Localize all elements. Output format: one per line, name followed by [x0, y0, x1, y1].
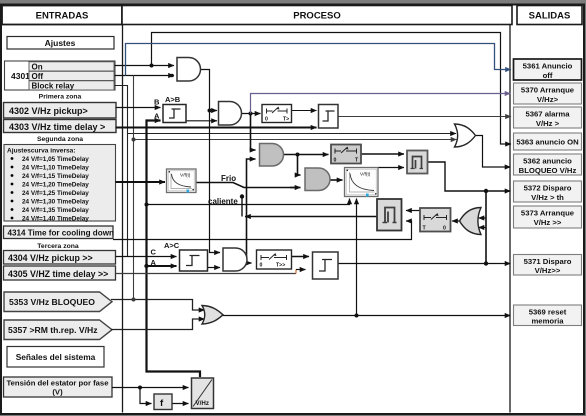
svg-text:Ajustescurva inversa:: Ajustescurva inversa: — [7, 148, 76, 155]
output box 5373 Arranque V/Hz >> — [514, 206, 582, 228]
output box 5370 Arranque V/Hz> — [514, 83, 582, 104]
svg-text:24 V/f=1,25 TimeDelay: 24 V/f=1,25 TimeDelay — [22, 190, 89, 197]
svg-text:V/Hz>: V/Hz> — [537, 95, 559, 104]
wire violet pickup to output 5370 Arranque — [251, 94, 511, 114]
wire Block relay continuation down to 4304 row — [127, 134, 129, 257]
wire 4305 gray to trigger S3 second input — [116, 273, 297, 275]
wire Tension V to V/Hz divider — [112, 387, 189, 389]
svg-text:V/Hz >>: V/Hz >> — [534, 218, 562, 227]
wire 5353 vertical up to OR input line — [133, 140, 135, 300]
wire curve box 1 output through Frio/caliente switch to AND U4 — [196, 183, 295, 188]
column divider right — [509, 25, 511, 413]
V/Hz divider box — [192, 378, 214, 409]
setting box 4302 V/Hz pickup — [4, 103, 117, 119]
svg-text:Tercera zona: Tercera zona — [37, 243, 79, 250]
svg-text:(V): (V) — [52, 388, 63, 397]
wire trip vertical bus — [485, 191, 487, 264]
comparator A>B — [163, 105, 186, 123]
node junction at AND U2 input — [208, 109, 212, 113]
svg-text:Primera zona: Primera zona — [39, 94, 82, 101]
output box 5362 anuncio BLOQUEO V/Hz — [514, 154, 582, 175]
wire orange jog on 4305 line — [295, 270, 297, 274]
svg-text:24 V/f=1,15 TimeDelay: 24 V/f=1,15 TimeDelay — [22, 173, 89, 180]
node junction V branch — [138, 386, 142, 390]
output box 5371 Disparo V/Hz>> — [514, 255, 582, 276]
wire 4304 to comparator C input — [116, 256, 177, 258]
svg-text:B: B — [154, 98, 160, 107]
svg-text:5363 anuncio ON: 5363 anuncio ON — [516, 138, 579, 147]
arrow bus into comparator A input — [150, 120, 161, 122]
svg-text:A>B: A>B — [165, 95, 181, 104]
svg-text:V/f(t): V/f(t) — [180, 173, 191, 179]
svg-text:24 V/f=1,35 TimeDelay: 24 V/f=1,35 TimeDelay — [22, 207, 89, 214]
wire bus tap to curve box 2 bottom — [147, 199, 350, 205]
timer 0-T gray box — [331, 145, 361, 164]
wire V/Hz measuring bus — [147, 121, 201, 378]
svg-text:On: On — [32, 63, 43, 72]
mirrored OR gate trip collect — [460, 208, 482, 235]
output box 5369 reset memoria — [514, 305, 582, 326]
svg-text:0: 0 — [334, 158, 337, 164]
svg-text:5373 Arranque: 5373 Arranque — [521, 209, 575, 218]
trigger S4 pulse gray — [407, 151, 428, 174]
wire branch to AND U2 first input — [210, 110, 218, 112]
input box Tensión del estator por fase (V) — [4, 377, 113, 397]
AND gate U2 stage 1 — [219, 102, 242, 126]
svg-text:24 V/f=1,30 TimeDelay: 24 V/f=1,30 TimeDelay — [22, 199, 89, 206]
binary input tag 5357 >RM th.rep. V/Hz — [4, 320, 112, 340]
svg-text:24 V/f=1,40 TimeDelay: 24 V/f=1,40 TimeDelay — [22, 216, 89, 223]
wire dropout timer output to pulse box — [406, 210, 420, 212]
pulse box reset gray — [377, 199, 402, 231]
svg-text:ENTRADAS: ENTRADAS — [36, 11, 89, 22]
node caliente contact — [240, 194, 244, 198]
wire comparator A>B output to AND U2 — [186, 120, 217, 122]
wire timer T> output to trigger S1 — [292, 110, 317, 112]
label box Señales del sistema — [7, 347, 104, 368]
svg-text:V/Hz>>: V/Hz>> — [535, 266, 561, 275]
svg-text:0: 0 — [443, 226, 446, 232]
svg-text:caliente: caliente — [208, 197, 238, 206]
node junction 5353 branch up — [132, 298, 136, 302]
svg-text:Segunda zona: Segunda zona — [37, 136, 83, 143]
wire bus to comparator A>C input A — [147, 265, 177, 267]
wire 5353 to OR gate U6 — [111, 300, 205, 311]
AND gate U5 stage 3 — [223, 248, 247, 271]
wire blocking OR output to 5362 anuncio BLOQUEO — [476, 136, 511, 168]
svg-text:5369 reset: 5369 reset — [529, 307, 567, 316]
svg-text:Block relay: Block relay — [32, 82, 75, 91]
setting group 4301 On/Off/Block relay — [5, 61, 116, 91]
wire Off blue to output 5361 Anuncio off — [126, 44, 512, 76]
wire 4305 into trigger S3 — [296, 269, 306, 271]
timer T> box — [262, 105, 292, 123]
svg-text:4305 V/HZ time delay >>: 4305 V/HZ time delay >> — [8, 269, 108, 279]
output box 5372 Disparo V/Hz > th — [514, 181, 582, 202]
AND gate U4 thermal gray — [305, 168, 330, 191]
wire timer 0-T output to trigger S4 — [361, 153, 404, 155]
svg-text:Ajustes: Ajustes — [45, 38, 76, 48]
svg-text:Tensión del estator por fase: Tensión del estator por fase — [7, 379, 110, 388]
setting box 4314 Time for cooling down — [4, 226, 114, 239]
node junction bus tap — [145, 203, 149, 207]
svg-text:0: 0 — [260, 263, 263, 269]
wire V branch down to f box — [140, 388, 152, 404]
node junction trip line 5372 — [484, 189, 488, 193]
node junction trip line 5371 — [484, 261, 488, 265]
wire trigger S3 output to 5371 Disparo — [338, 263, 511, 265]
node junction Off at AND input — [170, 74, 174, 78]
wire stub into mirrored OR input 2 — [479, 227, 487, 229]
node junction AND U3 output — [296, 153, 300, 157]
setting box 4305 V/HZ time delay >> — [4, 266, 116, 280]
svg-text:4304 V/Hz pickup >>: 4304 V/Hz pickup >> — [8, 253, 93, 263]
binary input tag 5353 V/Hz BLOQUEO — [4, 292, 112, 312]
wire AND U2 output to timer T> — [242, 113, 261, 115]
svg-text:T>: T> — [283, 117, 289, 123]
wire AND U1 output down to AND U5 — [201, 70, 221, 253]
svg-text:PROCESO: PROCESO — [293, 11, 341, 22]
wire Off gray branch down to blocking OR gate — [134, 76, 457, 140]
svg-text:memoria: memoria — [531, 317, 564, 326]
trigger S3 stage 3 — [313, 252, 339, 279]
wire Off to AND U1 second input — [115, 75, 175, 77]
svg-text:Frio: Frio — [221, 174, 236, 183]
svg-text:V/Hz: V/Hz — [196, 400, 209, 407]
comparator A>C — [180, 250, 208, 271]
wire 4302 to comparator B input — [116, 107, 161, 109]
curve box 2 V/f(t) — [345, 168, 379, 197]
node junction On branch — [150, 64, 154, 68]
AND gate U3 stage 2 gray — [260, 144, 284, 167]
frequency box f — [154, 394, 172, 410]
svg-text:SALIDAS: SALIDAS — [529, 11, 571, 22]
svg-text:0: 0 — [265, 117, 268, 123]
column header PROCESO — [122, 6, 512, 25]
AND gate U1 function on — [177, 58, 201, 82]
svg-text:5371 Disparo: 5371 Disparo — [524, 257, 572, 266]
setting box curve list Ajustes curva inversa — [4, 145, 116, 223]
wire caliente contact stub — [241, 197, 243, 217]
svg-text:V/Hz > th: V/Hz > th — [531, 193, 564, 202]
dropout timer T-0 gray — [420, 208, 451, 232]
output box 5363 anuncio ON — [514, 133, 582, 150]
svg-text:5367 alarma: 5367 alarma — [525, 110, 570, 119]
curve box 1 V/f(t) — [167, 169, 197, 193]
wire Block relay to blocking OR gate — [115, 86, 457, 134]
wire timer T>> output to trigger S3 — [292, 256, 310, 258]
svg-text:24 V/f=1,20 TimeDelay: 24 V/f=1,20 TimeDelay — [22, 182, 89, 189]
wire curve settings to curve box 1 — [116, 181, 166, 183]
OR gate blocking — [455, 124, 476, 147]
wire OR U6 output to 5369 reset memoria — [223, 315, 511, 317]
wire branch down to AND U4 first input — [298, 155, 301, 176]
svg-text:5353 V/Hz BLOQUEO: 5353 V/Hz BLOQUEO — [9, 297, 95, 307]
svg-text:5372 Disparo: 5372 Disparo — [524, 184, 572, 193]
wire 5357 to OR gate U6 — [111, 319, 205, 330]
svg-text:4301: 4301 — [11, 71, 30, 81]
wire hot/cold vertical to AND U3 second input — [247, 159, 256, 263]
wire AND U3 output to timer 0-T — [284, 154, 329, 156]
column header SALIDAS — [517, 6, 582, 25]
svg-text:5357 >RM th.rep. V/Hz: 5357 >RM th.rep. V/Hz — [8, 325, 98, 335]
wire pickup down to AND U3 — [251, 114, 256, 151]
wire stub into mirrored OR input 1 — [479, 217, 487, 219]
svg-text:4303 V/Hz time delay >: 4303 V/Hz time delay > — [9, 122, 105, 132]
svg-text:V/Hz >: V/Hz > — [536, 119, 560, 128]
svg-text:A>C: A>C — [164, 241, 180, 250]
svg-text:24 V/f=1,10 TimeDelay: 24 V/f=1,10 TimeDelay — [22, 165, 89, 172]
svg-text:T>>: T>> — [276, 263, 285, 269]
svg-text:5370 Arranque: 5370 Arranque — [521, 86, 575, 95]
svg-text:4302 V/Hz pickup>: 4302 V/Hz pickup> — [9, 106, 88, 116]
svg-text:off: off — [543, 71, 553, 80]
wire curve box 2 output to trigger S4 — [378, 167, 404, 169]
svg-text:Señales del sistema: Señales del sistema — [16, 352, 96, 362]
wire mirrored OR output to dropout timer — [452, 220, 459, 222]
column header ENTRADAS — [2, 6, 122, 25]
wire On to output 5363 anuncio ON — [152, 33, 512, 145]
wire f box output to V/Hz divider — [172, 403, 189, 405]
output box 5367 alarma V/Hz > — [514, 107, 582, 128]
wire On to AND U1 — [115, 65, 175, 67]
setting box 4304 V/Hz pickup >> — [4, 251, 116, 265]
node junction Off/5353 vertical at OR input — [132, 138, 136, 142]
svg-text:A: A — [151, 258, 157, 267]
OR gate U6 reset memory — [202, 306, 223, 325]
wire 4314 cooling time to pulse box — [113, 221, 412, 240]
node junction on reset memory line — [355, 314, 359, 318]
svg-text:V/f(t): V/f(t) — [360, 172, 371, 178]
wire 4303 time delay bold to stage1 trigger — [116, 127, 317, 129]
wire reset memory vertical to curve box 2 bottom — [356, 199, 358, 316]
svg-text:24 V/f=1,05 TimeDelay: 24 V/f=1,05 TimeDelay — [22, 156, 89, 163]
input box Ajustes — [7, 37, 114, 50]
trigger S1 stage1 — [319, 105, 339, 129]
wire trigger S1 output to 5367 alarma — [338, 116, 511, 118]
svg-text:4314 Time for cooling down: 4314 Time for cooling down — [8, 229, 114, 238]
setting box 4303 V/Hz time delay — [4, 120, 117, 133]
svg-text:5362 anuncio: 5362 anuncio — [523, 157, 572, 166]
timer T>> box — [257, 250, 292, 269]
svg-text:Off: Off — [32, 72, 44, 81]
wire reset pulse back to switch — [245, 216, 377, 218]
wire AND U4 output to curve box 2 — [330, 179, 343, 181]
svg-text:BLOQUEO V/Hz: BLOQUEO V/Hz — [519, 166, 577, 175]
wire into timer T>> input — [247, 262, 252, 264]
wire trigger S4 output to 5372 Disparo — [428, 162, 511, 191]
column divider left — [122, 25, 124, 413]
wire comparator A>C output to AND U5 — [208, 267, 221, 269]
svg-text:A: A — [154, 112, 160, 121]
svg-text:C: C — [151, 248, 157, 257]
node junction AND U2 output — [249, 112, 253, 116]
node junction bus at A>C — [144, 264, 148, 268]
svg-text:5361 Anuncio: 5361 Anuncio — [523, 62, 573, 71]
output box 5361 Anuncio off — [514, 59, 582, 80]
